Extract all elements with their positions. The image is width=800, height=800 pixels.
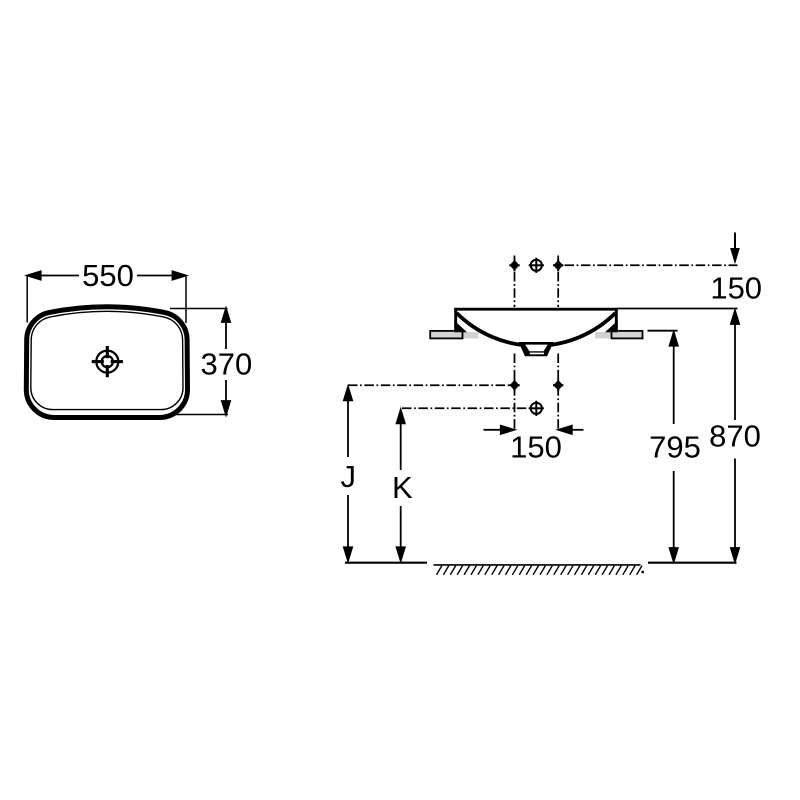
countertop cut, right outlined block	[612, 331, 643, 339]
countertop cut, right gray strip behind basin	[595, 332, 612, 339]
dimension K: vertical line + arrows	[397, 410, 405, 561]
marker: right tap hole top	[553, 259, 563, 271]
floor hatched band: hatch strokes	[437, 566, 643, 575]
dimension 550: right extension line	[185, 275, 187, 323]
svg-text:795: 795	[649, 430, 701, 465]
vertical centerline right tap hole, upper	[557, 256, 559, 308]
floor line, left segment	[345, 562, 427, 564]
drain: outer body	[519, 342, 554, 356]
svg-text:150: 150	[510, 430, 562, 465]
svg-text:370: 370	[201, 346, 253, 381]
drain: white bottom slit	[530, 353, 544, 355]
centerlines (dash-dot)	[348, 256, 738, 432]
basin elevation: bowl curve	[457, 313, 616, 346]
svg-text:K: K	[392, 470, 413, 505]
vertical centerline left tap hole, upper	[514, 256, 516, 308]
marker: center tap hole top	[529, 258, 544, 273]
dimension J: vertical line + arrows	[344, 387, 352, 561]
floor hatched band: top line	[434, 564, 641, 566]
dimension 370: line + arrows	[222, 309, 230, 415]
marker: right tap hole at J height	[553, 379, 563, 391]
floor hatched band: end dot	[642, 571, 644, 573]
dimension 370: top extension line	[170, 308, 228, 310]
extension line: countertop level segment	[648, 330, 678, 332]
dimension 150 between tap holes: left arrow	[484, 426, 584, 434]
svg-text:550: 550	[82, 258, 134, 293]
dimension 550: left extension line	[26, 275, 28, 323]
basin elevation: left wall-to-bowl fill wedge	[454, 321, 467, 333]
dimension 870: vertical line + arrows	[731, 311, 739, 562]
arrow down to top centerline (150 ref)	[734, 233, 736, 251]
countertop cut, left gray strip behind basin	[463, 332, 479, 339]
countertop cut, left outlined block	[430, 331, 462, 339]
drain: inner white cavity	[525, 345, 548, 352]
floor line, right segment	[648, 562, 737, 564]
vertical centerline left tap hole, lower	[514, 354, 516, 432]
dimension 795: vertical line + arrows	[670, 332, 678, 561]
basin elevation: top rim line	[454, 308, 618, 311]
marker: left tap hole at J height	[509, 379, 519, 391]
basin plan view: inner rim line	[31, 311, 183, 409]
dimension 550: line + arrows	[27, 271, 186, 279]
horizontal centerline at top tap height	[565, 264, 738, 266]
dimension 150 between tap holes: right arrow	[572, 429, 584, 431]
svg-text:870: 870	[709, 418, 761, 453]
horizontal centerline at K height	[402, 407, 531, 409]
horizontal centerline at J height	[348, 384, 511, 386]
extension line: basin rim level to right	[617, 308, 738, 310]
marker: center tap hole at K height	[529, 401, 544, 416]
dimension 370: bottom extension line	[170, 414, 228, 416]
svg-text:150: 150	[710, 270, 762, 305]
tap hole symbol (plan)	[92, 346, 123, 377]
marker: left tap hole top	[509, 259, 519, 271]
basin elevation: right outer wall	[615, 308, 618, 331]
svg-text:J: J	[341, 459, 357, 494]
vertical centerline right tap hole, lower	[557, 354, 559, 432]
basin plan view: outer rim	[26, 307, 187, 418]
basin elevation: left outer wall	[454, 308, 457, 331]
basin elevation: right wall-to-bowl fill wedge	[605, 321, 618, 333]
